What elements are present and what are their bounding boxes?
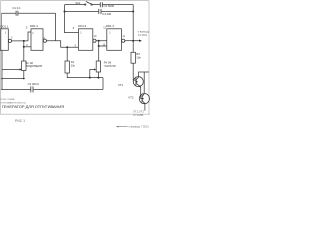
svg-text:5: 5 [26,27,28,30]
svg-text:SA1: SA1 [75,1,81,5]
svg-text:C2 200,0: C2 200,0 [28,82,40,86]
svg-text:8: 8 [73,27,75,30]
svg-text:VT2: VT2 [128,95,134,99]
svg-text:КТ315Б: КТ315Б [134,113,144,117]
gate U1 DD1.1 [1,29,9,51]
wire stub under box1 [0,49,2,51]
wiper arrow R2 [2,69,20,71]
wire VT2 emitter down [144,104,146,111]
svg-text:3: 3 [11,36,13,39]
svg-text:РИС 1: РИС 1 [15,119,25,123]
wire R2 bottom return [1,71,24,79]
capacitor C1 [16,11,18,16]
wire T1 (upper, SA1/C3) [65,4,134,6]
node out1 junction [23,40,25,42]
svg-text:ГЕНЕРАТОР ДЛЯ ОТПУГИВАНИЯ: ГЕНЕРАТОР ДЛЯ ОТПУГИВАНИЯ [2,104,64,109]
node R4 bottom junction [97,77,99,79]
svg-text:“ЧАСТОТА”: “ЧАСТОТА” [104,65,117,68]
svg-text:C4 200: C4 200 [102,12,111,16]
svg-text:10к: 10к [136,56,141,60]
resistor R2 (pot МОДУЛЯЦИЯ) [22,61,26,71]
node junction T2 right [132,11,134,13]
wire pin6 input [24,46,31,48]
inverter bubble DD1.2 [43,39,46,42]
inverter bubble DD1.3 [93,39,96,42]
wire down to R2 [23,41,25,61]
ground rail with C2 [1,89,103,91]
node pin6 branch [23,46,25,48]
node R1 junction [66,46,68,48]
wire out4 with arrow [125,40,139,42]
gate U2 DD1.2 [31,29,43,51]
wire out3 [96,41,107,46]
wire down to R5 [132,41,134,53]
transistor Q1 VT1 [133,77,143,87]
annotation k vyvodu 7 with arrow [118,126,128,128]
wire out2 [47,41,79,48]
svg-text:DD1.2: DD1.2 [30,24,38,28]
svg-text:DD1.1: DD1.1 [1,24,9,28]
wire R1 bottom [67,73,103,78]
resistor R5 [131,52,135,63]
arrowhead out4 [139,40,142,42]
wire right column down [132,5,134,41]
node junction T2 left [64,11,66,13]
svg-text:14 DD1: 14 DD1 [138,33,148,37]
node R4 wiper junction [89,77,91,79]
inverter bubble DD1.1 [8,39,11,42]
gate U3 DD1.3 [79,29,93,51]
svg-text:C3 5000: C3 5000 [104,4,115,8]
wire R4 bottom [97,72,99,78]
wire W1 (C1 feedback, top-left) [2,13,56,41]
wire out1 [12,32,31,41]
capacitor C2 [31,86,33,92]
resistor R4 (pot ЧАСТОТА) [96,61,100,72]
wire left vertical [1,50,3,89]
wire down to R4 [98,41,100,61]
node R4 junction [98,40,100,42]
gate U4 DD1.4 [107,29,122,51]
svg-text:ПОЛН. СХЕМА: ПОЛН. СХЕМА [0,98,15,101]
wire VT1 emitter to VT2 [141,87,142,99]
svg-text:33к: 33к [71,64,76,67]
svg-text:VT1: VT1 [118,83,124,87]
node out4 junction [132,40,134,42]
wire rail drop [102,78,104,90]
capacitor C4 [99,9,101,14]
svg-text:10: 10 [94,35,97,38]
resistor R1 [65,61,69,73]
svg-text:DD1.3: DD1.3 [78,24,86,28]
switch SA1 [85,4,86,5]
svg-text:“МОДУЛЯЦИЯ”: “МОДУЛЯЦИЯ” [26,65,43,68]
inverter bubble DD1.4 [122,39,125,42]
wire input drop to DD1.1 [1,13,3,29]
wire T2 (lower, C4) [65,11,134,13]
wiper arrow R4 [90,70,95,78]
svg-text:11: 11 [122,35,125,38]
wire V2 vertical [65,5,79,33]
wire R5 to VT1 base [133,63,136,80]
svg-text:к выводу 7 DD1: к выводу 7 DD1 [129,125,150,129]
wire VT1 collector [139,72,149,93]
transistor Q2 VT2 [139,94,149,104]
svg-text:R4 1М: R4 1М [104,61,111,64]
wire down to R1 [66,47,68,61]
capacitor C3 [100,2,102,7]
svg-text:DD1.4: DD1.4 [106,24,114,28]
svg-text:C1 0,1: C1 0,1 [12,6,21,10]
